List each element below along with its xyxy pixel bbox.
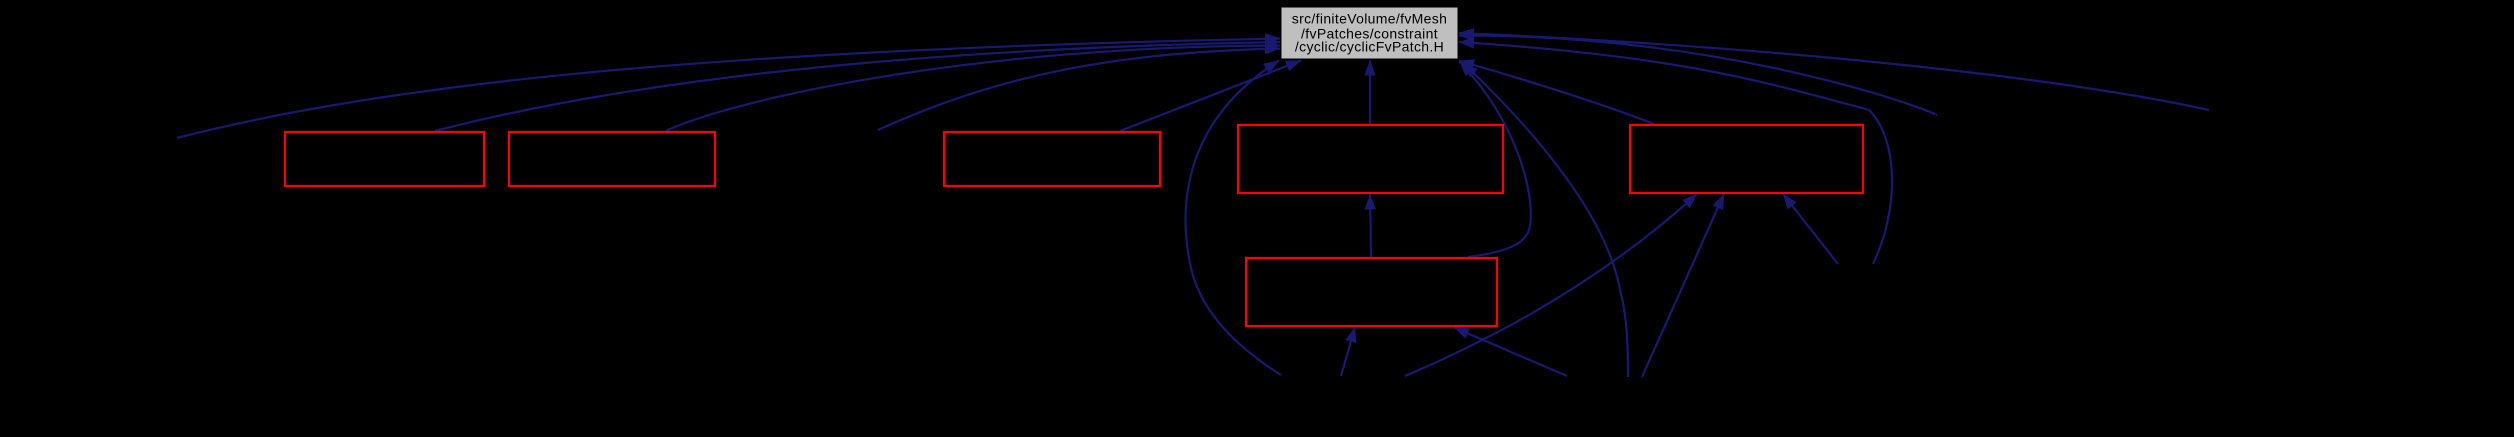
- svg-text:src/finiteVolume/fvMesh: src/finiteVolume/fvMesh: [1292, 11, 1447, 27]
- svg-text:/cyclic/cyclicFvPatch.H: /cyclic/cyclicFvPatch.H: [1295, 39, 1444, 55]
